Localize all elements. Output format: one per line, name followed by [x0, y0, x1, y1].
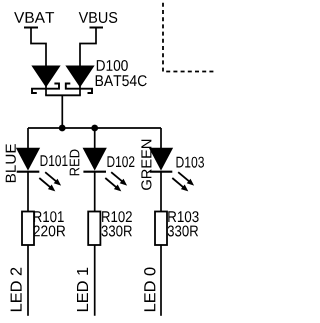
value label BAT54C [96, 75, 147, 86]
LED D102 emission arrow 1 [111, 172, 127, 185]
power symbol VBUS bar [90, 27, 104, 29]
net label GREEN [141, 140, 151, 190]
resistor R101 body [22, 212, 34, 246]
wire bus to D103 anode [160, 128, 162, 149]
label R101 [34, 211, 64, 222]
sheet boundary dashed vertical [162, 3, 164, 72]
label R102 [102, 211, 132, 222]
diode D100 element B cathode lead [79, 86, 81, 95]
junction dot at D100 cathode / bus [59, 125, 66, 132]
wire R101 to LED_2 [27, 245, 29, 316]
wire VBAT to D100 anode A [31, 28, 46, 67]
diode D100 element B schottky cathode bar [66, 84, 92, 94]
LED D102 emission arrow 2 [105, 178, 121, 191]
LED D101 emission arrow 2 [39, 178, 55, 191]
resistor R103 body [155, 212, 167, 246]
label R103 [168, 211, 198, 222]
diode D100 BAT54C element B triangle [66, 66, 93, 87]
label D103 [177, 157, 205, 168]
LED D101 cathode bar [17, 171, 40, 173]
net label LED 2 [10, 268, 21, 311]
diode D100 BAT54C element A triangle [32, 66, 59, 87]
net label BLUE [6, 144, 16, 182]
net label LED 1 [77, 268, 88, 311]
LED D103 triangle [150, 148, 173, 169]
wire D100 common cathode to bus [61, 95, 63, 128]
LED D103 emission arrow 2 [172, 178, 188, 191]
LED D102 triangle [83, 148, 106, 169]
sheet boundary dashed horizontal [163, 71, 215, 73]
diode D100 element A schottky cathode bar [32, 84, 59, 94]
LED D101 triangle [17, 148, 40, 169]
net label RED [70, 150, 80, 176]
power symbol VBAT bar [24, 27, 38, 29]
wire bus to D102 anode [94, 128, 96, 149]
value label 330R [168, 226, 198, 237]
power label VBUS [79, 12, 118, 23]
LED D101 emission arrow 1 [45, 172, 61, 185]
junction dot at bus / D102 branch [91, 125, 98, 132]
LED D103 cathode bar [150, 171, 173, 173]
wire anode bus horizontal [28, 127, 161, 129]
wire D101 cathode to R101 [27, 172, 29, 213]
wire D103 cathode to R103 [160, 172, 162, 213]
diode D100 element A cathode lead [45, 86, 47, 95]
net label LED 0 [144, 268, 155, 312]
wire bus to D101 anode [27, 128, 29, 149]
label D101 [41, 155, 68, 166]
LED D102 cathode bar [83, 171, 106, 173]
wire R103 to LED_0 [160, 245, 162, 316]
diode D100 common cathode line [45, 94, 81, 96]
wire R102 to LED_1 [94, 245, 96, 316]
wire D102 cathode to R102 [94, 172, 96, 212]
resistor R102 body [88, 212, 100, 246]
value label 330R [102, 226, 132, 237]
LED D103 emission arrow 1 [178, 172, 194, 185]
label D102 [108, 156, 135, 167]
power label VBAT [14, 12, 54, 23]
wire VBUS to D100 anode B [80, 28, 96, 67]
label D100 [97, 60, 128, 71]
value label 220R [34, 226, 66, 237]
